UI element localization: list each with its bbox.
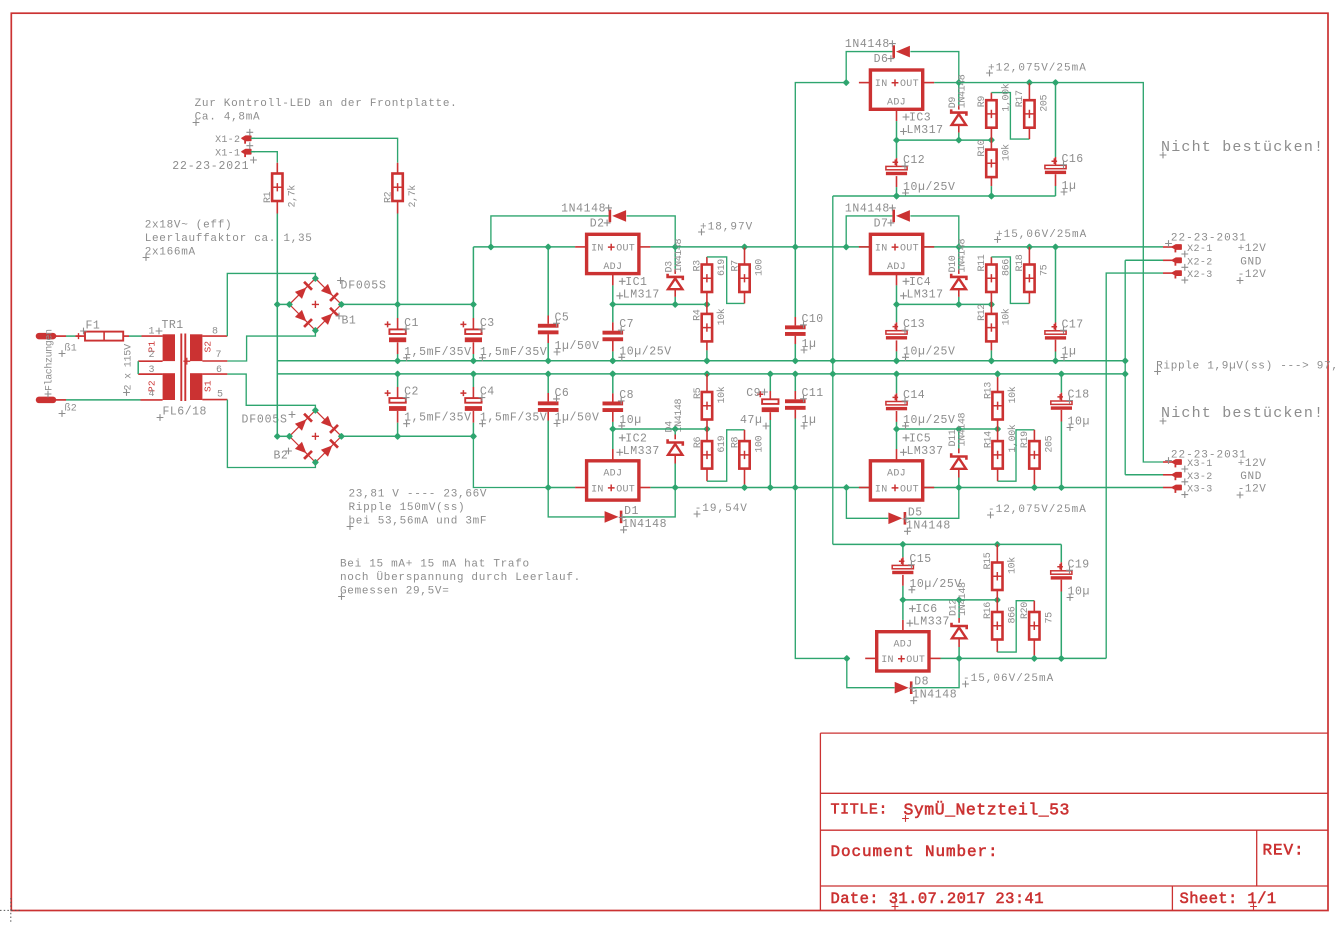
svg-text:100: 100 xyxy=(755,259,766,276)
svg-text:1,5mF/35V: 1,5mF/35V xyxy=(404,412,472,425)
capacitor C1 xyxy=(389,329,406,342)
svg-text:ADJ: ADJ xyxy=(603,262,622,273)
resistor R5 xyxy=(702,392,712,420)
wire raw plus to IC1 IN xyxy=(473,246,575,248)
D4 bottom lead xyxy=(674,455,676,464)
R15 top lead xyxy=(996,544,998,562)
node C7 gnd xyxy=(609,357,616,364)
wire R1 to GND column xyxy=(276,214,278,305)
R1 bottom lead xyxy=(276,201,278,214)
svg-text:10µ/25V: 10µ/25V xyxy=(903,414,956,427)
svg-text:D5: D5 xyxy=(908,506,923,519)
svg-text:1,5mF/35V: 1,5mF/35V xyxy=(480,412,548,425)
wire GND rail 2 xyxy=(277,373,1125,375)
C5 top lead xyxy=(547,316,549,324)
svg-text:1N4148: 1N4148 xyxy=(674,398,685,432)
wire IC6 top rail xyxy=(833,543,1062,545)
node GND at B2 xyxy=(274,433,281,440)
R11 top lead xyxy=(990,257,992,265)
svg-text:R11: R11 xyxy=(977,254,988,271)
connector pin X2-3 xyxy=(1172,271,1181,279)
svg-text:Flachzungen: Flachzungen xyxy=(44,329,56,391)
wire C12 bottom xyxy=(896,187,898,196)
R5 top lead xyxy=(706,374,708,392)
svg-text:R4: R4 xyxy=(693,309,704,321)
svg-text:2: 2 xyxy=(149,350,155,361)
wire X3-2 GND xyxy=(1125,474,1163,476)
wire C1 bottom xyxy=(397,354,399,361)
transformer TR1 winding P1 xyxy=(163,334,175,361)
resistor R20 xyxy=(1029,612,1039,640)
node C6 top xyxy=(545,370,552,377)
svg-text:R3: R3 xyxy=(693,260,704,272)
svg-text:Gemessen 29,5V=: Gemessen 29,5V= xyxy=(340,586,450,598)
node D4 adj xyxy=(672,425,679,432)
svg-text:C11: C11 xyxy=(802,387,824,400)
C9 bottom lead xyxy=(769,412,771,420)
C15 bottom lead xyxy=(902,575,904,586)
node R12 gnd xyxy=(988,357,995,364)
D10 top lead xyxy=(958,269,960,274)
C1 top lead xyxy=(397,318,399,329)
TR1 pin 6 lead xyxy=(202,373,227,375)
R14 bottom lead xyxy=(997,469,999,482)
C3 bottom lead xyxy=(472,342,474,354)
svg-text:Ripple 150mV(ss): Ripple 150mV(ss) xyxy=(349,502,466,514)
svg-text:1N4148: 1N4148 xyxy=(845,38,890,51)
svg-text:OUT: OUT xyxy=(900,484,919,495)
svg-text:C13: C13 xyxy=(903,318,925,331)
D3 top lead xyxy=(674,269,676,274)
svg-text:23,81 V ---- 23,66V: 23,81 V ---- 23,66V xyxy=(349,489,488,501)
R12 bottom lead xyxy=(990,341,992,350)
X3-1 lead xyxy=(1163,461,1172,463)
svg-text:OUT: OUT xyxy=(616,484,635,495)
node D10 adj xyxy=(955,301,962,308)
C16 top lead xyxy=(1055,157,1057,165)
wire X1-2 to R2 xyxy=(255,138,398,163)
node B1 vertex xyxy=(312,275,319,282)
C8 bottom lead xyxy=(612,411,614,422)
svg-text:X3-3: X3-3 xyxy=(1187,485,1213,496)
svg-text:ADJ: ADJ xyxy=(893,639,912,650)
R2 bottom lead xyxy=(397,201,399,214)
node B1 vertex xyxy=(312,327,319,334)
wire plus 12V to X3-1 xyxy=(934,83,1163,462)
D9 top lead xyxy=(958,105,960,110)
node C17 top xyxy=(1052,243,1059,250)
C10 top lead xyxy=(794,317,796,325)
D11 bottom lead xyxy=(958,469,960,478)
svg-text:C16: C16 xyxy=(1062,153,1084,166)
IC5 OUT pin xyxy=(923,487,935,489)
svg-text:R12: R12 xyxy=(977,304,988,321)
capacitor C17 xyxy=(1045,331,1066,340)
IC4 IN pin xyxy=(859,246,871,248)
wire D7 anode side xyxy=(846,216,892,247)
node R4 gnd xyxy=(703,357,710,364)
node C13 gnd xyxy=(893,357,900,364)
svg-text:C17: C17 xyxy=(1062,318,1084,331)
svg-text:Bei 15 mA+ 15 mA hat Trafo: Bei 15 mA+ 15 mA hat Trafo xyxy=(340,559,530,571)
wire R11 to R18 xyxy=(991,257,1029,304)
svg-text:4: 4 xyxy=(149,389,155,400)
svg-text:X2-2: X2-2 xyxy=(1187,257,1213,268)
connector pin X2-1 xyxy=(1172,245,1181,253)
connector pin X1-2 xyxy=(242,136,251,144)
wire R16 to R20 xyxy=(997,601,1034,652)
IC2 OUT pin xyxy=(639,487,651,489)
node R8 out xyxy=(741,484,748,491)
wire IC6 ADJ rail xyxy=(903,599,997,601)
node IC5 adj R xyxy=(994,425,1001,432)
svg-text:X2-1: X2-1 xyxy=(1187,244,1213,255)
zener diode D3 1N4148 xyxy=(668,274,683,290)
wire C7 bottom xyxy=(612,351,614,360)
wire IC4 ADJ rail xyxy=(897,303,992,305)
C18 top lead xyxy=(1060,393,1062,401)
svg-text:GND: GND xyxy=(1240,471,1262,483)
R10 top lead xyxy=(990,140,992,150)
node spine rail1 xyxy=(829,357,836,364)
TR1 pin 5 lead xyxy=(202,399,227,401)
IC3 IN pin xyxy=(859,82,871,84)
svg-text:R9: R9 xyxy=(977,96,988,108)
svg-text:ADJ: ADJ xyxy=(887,468,906,479)
wire D1 anode side xyxy=(548,488,604,517)
TR1 pin 1 lead xyxy=(142,335,163,337)
svg-text:IN: IN xyxy=(875,484,888,495)
node IC2 adj C xyxy=(609,425,616,432)
X2-3 lead xyxy=(1163,272,1172,274)
svg-text:C9: C9 xyxy=(746,387,761,400)
svg-text:Zur Kontroll-LED an der Frontp: Zur Kontroll-LED an der Frontplatte. xyxy=(195,98,458,110)
R8 bottom lead xyxy=(744,469,746,488)
R2 top lead xyxy=(397,163,399,174)
node R18 top xyxy=(1026,243,1033,250)
capacitor C7 xyxy=(603,331,624,341)
svg-text:2,7k: 2,7k xyxy=(287,185,299,208)
wire minus feed to IC6 xyxy=(795,488,847,659)
svg-text:D6: D6 xyxy=(874,53,889,66)
wire R4 to gnd xyxy=(706,350,708,360)
wire C3 top xyxy=(472,304,474,318)
svg-text:IN: IN xyxy=(875,244,888,255)
R4 top lead xyxy=(706,304,708,314)
diode D6 1N4148 xyxy=(892,45,910,58)
R16 bottom lead xyxy=(996,640,998,653)
wire R12 to gnd xyxy=(990,350,992,360)
svg-text:1N4148: 1N4148 xyxy=(958,238,969,272)
capacitor C9 xyxy=(762,399,779,412)
svg-text:2x18V~ (eff): 2x18V~ (eff) xyxy=(145,220,233,232)
C11 bottom lead xyxy=(794,410,796,419)
node C7 gnd xyxy=(609,357,616,364)
svg-text:IN: IN xyxy=(591,484,604,495)
svg-text:1N4148: 1N4148 xyxy=(622,518,667,531)
svg-text:10µ/25V: 10µ/25V xyxy=(903,181,956,194)
node C18 out xyxy=(1058,484,1065,491)
title block xyxy=(820,733,1328,910)
node R15 top xyxy=(994,541,1001,548)
D9 bottom lead xyxy=(958,125,960,133)
diode D5 1N4148 xyxy=(888,512,906,525)
wire fuse to TR1 pin1 xyxy=(129,335,142,337)
C2 top lead xyxy=(397,387,399,398)
wire C8 bottom xyxy=(612,422,614,429)
R18 top lead xyxy=(1028,247,1030,265)
node R10 gnd xyxy=(988,192,995,199)
wire minus 12V rail xyxy=(650,487,1163,489)
wire C9 top xyxy=(769,374,771,391)
zener diode D10 1N4148 xyxy=(951,274,966,290)
wire minus 15V to X2-3 xyxy=(1106,273,1163,658)
resistor R7 xyxy=(739,265,749,293)
C19 top lead xyxy=(1060,562,1062,571)
svg-text:10µ/25V: 10µ/25V xyxy=(909,578,962,591)
wire X1-1 to R1 xyxy=(255,152,277,163)
wire IC4 ADJ xyxy=(896,285,898,304)
wire C10 bottom xyxy=(794,344,796,361)
wire C9 bottom xyxy=(769,420,771,488)
node IC3 adj R xyxy=(988,136,995,143)
node raw minus C2 xyxy=(394,433,401,440)
node D12 adj xyxy=(955,596,962,603)
wire IC1 ADJ rail xyxy=(613,303,707,305)
svg-text:C14: C14 xyxy=(903,389,925,402)
C9 top lead xyxy=(769,391,771,399)
svg-text:866: 866 xyxy=(1002,259,1013,276)
C12 top lead xyxy=(896,158,898,166)
C16 bottom lead xyxy=(1055,174,1057,186)
wire D12 top xyxy=(958,600,960,618)
svg-text:R2: R2 xyxy=(383,191,394,203)
node IC6 adj R xyxy=(994,596,1001,603)
C7 bottom lead xyxy=(612,340,614,351)
resistor R16 xyxy=(992,612,1002,640)
wire R10 to gnd xyxy=(990,186,992,196)
wire raw plus rail xyxy=(341,303,473,305)
svg-text:IN: IN xyxy=(875,79,888,90)
connector pin X3-1 xyxy=(1172,460,1181,468)
R13 top lead xyxy=(997,374,999,392)
svg-text:2 x 115V: 2 x 115V xyxy=(124,344,135,391)
C6 bottom lead xyxy=(547,412,549,421)
wire C19 bottom xyxy=(1060,592,1062,659)
node IC5 in xyxy=(843,484,850,491)
node IC3 out zener xyxy=(955,79,962,86)
wire GND column xyxy=(276,304,278,436)
node B2 vertex xyxy=(286,433,293,440)
svg-text:10k: 10k xyxy=(1007,557,1019,574)
svg-text:+12V: +12V xyxy=(1238,458,1267,470)
svg-text:LM317: LM317 xyxy=(907,124,944,137)
R6 top lead xyxy=(706,429,708,441)
svg-text:R14: R14 xyxy=(983,431,994,448)
capacitor C2 xyxy=(389,398,406,411)
R17 top lead xyxy=(1028,83,1030,101)
capacitor C6 xyxy=(538,401,559,412)
svg-text:IC6: IC6 xyxy=(915,603,937,616)
svg-text:1N4148: 1N4148 xyxy=(845,202,890,215)
transformer TR1 winding S2 xyxy=(190,334,202,361)
C5 bottom lead xyxy=(547,334,549,343)
svg-text:S2: S2 xyxy=(203,341,214,353)
svg-text:3: 3 xyxy=(149,365,155,376)
wire IC2 ADJ rail xyxy=(613,428,707,430)
svg-text:LM317: LM317 xyxy=(623,288,660,301)
C6 top lead xyxy=(547,393,549,401)
svg-text:1N4148: 1N4148 xyxy=(958,74,969,108)
node D11 out xyxy=(955,484,962,491)
origin cross marker xyxy=(0,898,22,922)
IC3 OUT pin xyxy=(923,82,935,84)
svg-text:R6: R6 xyxy=(693,436,704,448)
R4 bottom lead xyxy=(706,341,708,350)
D12 bottom lead xyxy=(958,639,960,648)
node D9 adj xyxy=(955,136,962,143)
connector pin X1-1 xyxy=(242,150,251,157)
IC1 ADJ pin xyxy=(612,274,614,286)
svg-text:ß1: ß1 xyxy=(65,343,77,355)
svg-text:X1-1: X1-1 xyxy=(215,148,240,159)
svg-text:-19,54V: -19,54V xyxy=(695,503,748,515)
wire IC6 ADJ xyxy=(902,600,904,620)
node C18 top xyxy=(1058,370,1065,377)
wire D5 cathode side xyxy=(906,488,958,519)
wire pin6 to B2 AC1 xyxy=(227,374,315,410)
C18 bottom lead xyxy=(1060,410,1062,422)
C4 top lead xyxy=(472,387,474,398)
wire C14 top xyxy=(896,374,898,394)
C17 top lead xyxy=(1055,323,1057,331)
wire R14 to R19 xyxy=(998,430,1035,481)
resistor R4 xyxy=(702,314,712,342)
node D4 out xyxy=(672,484,679,491)
C10 bottom lead xyxy=(794,336,796,344)
C14 top lead xyxy=(896,393,898,401)
IC5 ADJ pin xyxy=(896,449,898,461)
node IC6 adj C xyxy=(899,596,906,603)
svg-text:R8: R8 xyxy=(730,436,741,448)
svg-text:GND: GND xyxy=(1240,256,1262,268)
node C1 gnd xyxy=(394,357,401,364)
resistor R10 xyxy=(986,150,996,178)
svg-text:75: 75 xyxy=(1045,612,1056,624)
node B1 vertex xyxy=(286,301,293,308)
svg-text:TITLE:: TITLE: xyxy=(831,802,889,819)
svg-text:X2-3: X2-3 xyxy=(1187,270,1213,281)
wire D6 cathode side xyxy=(910,52,958,83)
C12 bottom lead xyxy=(896,176,898,187)
node C8 top xyxy=(609,370,616,377)
R13 bottom lead xyxy=(997,420,999,430)
R20 bottom lead xyxy=(1033,640,1035,659)
IC6 ADJ pin xyxy=(902,620,904,632)
wire D10 top xyxy=(958,247,960,269)
svg-text:10µ: 10µ xyxy=(1068,416,1091,429)
svg-text:D8: D8 xyxy=(914,676,929,689)
wire C5 top xyxy=(547,247,549,316)
voltage regulator IC3 LM317 xyxy=(870,70,922,109)
node R4 gnd xyxy=(703,357,710,364)
wire D9 top xyxy=(958,83,960,105)
wire GND rail 1 xyxy=(277,360,1125,362)
svg-text:X1-2: X1-2 xyxy=(215,135,240,146)
svg-text:C18: C18 xyxy=(1068,389,1090,402)
D3 bottom lead xyxy=(674,289,676,297)
node C9 out xyxy=(767,484,774,491)
svg-text:R10: R10 xyxy=(977,139,988,156)
node R20 out xyxy=(1031,655,1038,662)
connector pin X2-2 xyxy=(1172,258,1181,265)
svg-text:Ripple 1,9µV(ss) ---> 97,: Ripple 1,9µV(ss) ---> 97, xyxy=(1156,361,1339,373)
wire C16 bottom xyxy=(1055,186,1057,196)
wire pin8 to B1 AC1 xyxy=(227,273,315,336)
svg-text:10k: 10k xyxy=(1007,386,1019,403)
wire C5 bottom xyxy=(547,343,549,361)
node IC6 in xyxy=(843,655,850,662)
wire R2 to raw plus rail xyxy=(397,214,399,305)
node C3 gnd xyxy=(470,357,477,364)
node IC1 out zener xyxy=(672,243,679,250)
R12 top lead xyxy=(990,304,992,314)
svg-text:F1: F1 xyxy=(86,320,101,333)
wire C6 bottom xyxy=(547,421,549,488)
svg-text:IC2: IC2 xyxy=(625,432,647,445)
bridge rectifier B1 xyxy=(289,278,341,330)
X1-2 lead xyxy=(251,137,255,139)
wire C2 bottom xyxy=(397,423,399,437)
wire C6 top xyxy=(547,374,549,393)
svg-text:+15,06V/25mA: +15,06V/25mA xyxy=(996,229,1087,241)
svg-text:-12V: -12V xyxy=(1238,484,1267,496)
capacitor C19 xyxy=(1051,571,1072,580)
wire C18 top xyxy=(1060,374,1062,393)
svg-text:R17: R17 xyxy=(1015,90,1026,107)
svg-text:-15,06V/25mA: -15,06V/25mA xyxy=(963,673,1054,685)
svg-text:5: 5 xyxy=(217,390,223,401)
wire C12 top xyxy=(896,140,898,158)
node R17 top xyxy=(1026,79,1033,86)
R17 bottom lead xyxy=(1028,128,1030,139)
wire D3 top xyxy=(674,247,676,269)
svg-text:IC5: IC5 xyxy=(909,432,931,445)
wire R9 to R17 xyxy=(991,93,1029,140)
wire IC3 ADJ rail xyxy=(897,139,992,141)
svg-text:TR1: TR1 xyxy=(162,319,184,332)
X2-2 lead xyxy=(1163,259,1172,261)
wire B1 minus stub xyxy=(277,303,289,305)
resistor R3 xyxy=(702,265,712,293)
svg-text:bei 53,56mA und 3mF: bei 53,56mA und 3mF xyxy=(349,516,488,528)
svg-text:IN: IN xyxy=(881,655,894,666)
svg-text:+12V: +12V xyxy=(1238,243,1267,255)
node R19 out xyxy=(1031,484,1038,491)
resistor R9 xyxy=(986,100,996,128)
C4 bottom lead xyxy=(472,411,474,423)
wire plus 15V rail xyxy=(650,246,1163,248)
wire IC1 ADJ xyxy=(612,285,614,304)
svg-text:noch Überspannung durch Leerla: noch Überspannung durch Leerlauf. xyxy=(340,571,581,584)
C3 top lead xyxy=(472,318,474,329)
svg-text:10k: 10k xyxy=(1001,308,1013,325)
wire C3 bottom xyxy=(472,354,474,361)
C15 top lead xyxy=(902,557,904,565)
R7 top lead xyxy=(744,247,746,265)
IC6 OUT pin xyxy=(929,657,941,659)
D12 top lead xyxy=(958,618,960,623)
